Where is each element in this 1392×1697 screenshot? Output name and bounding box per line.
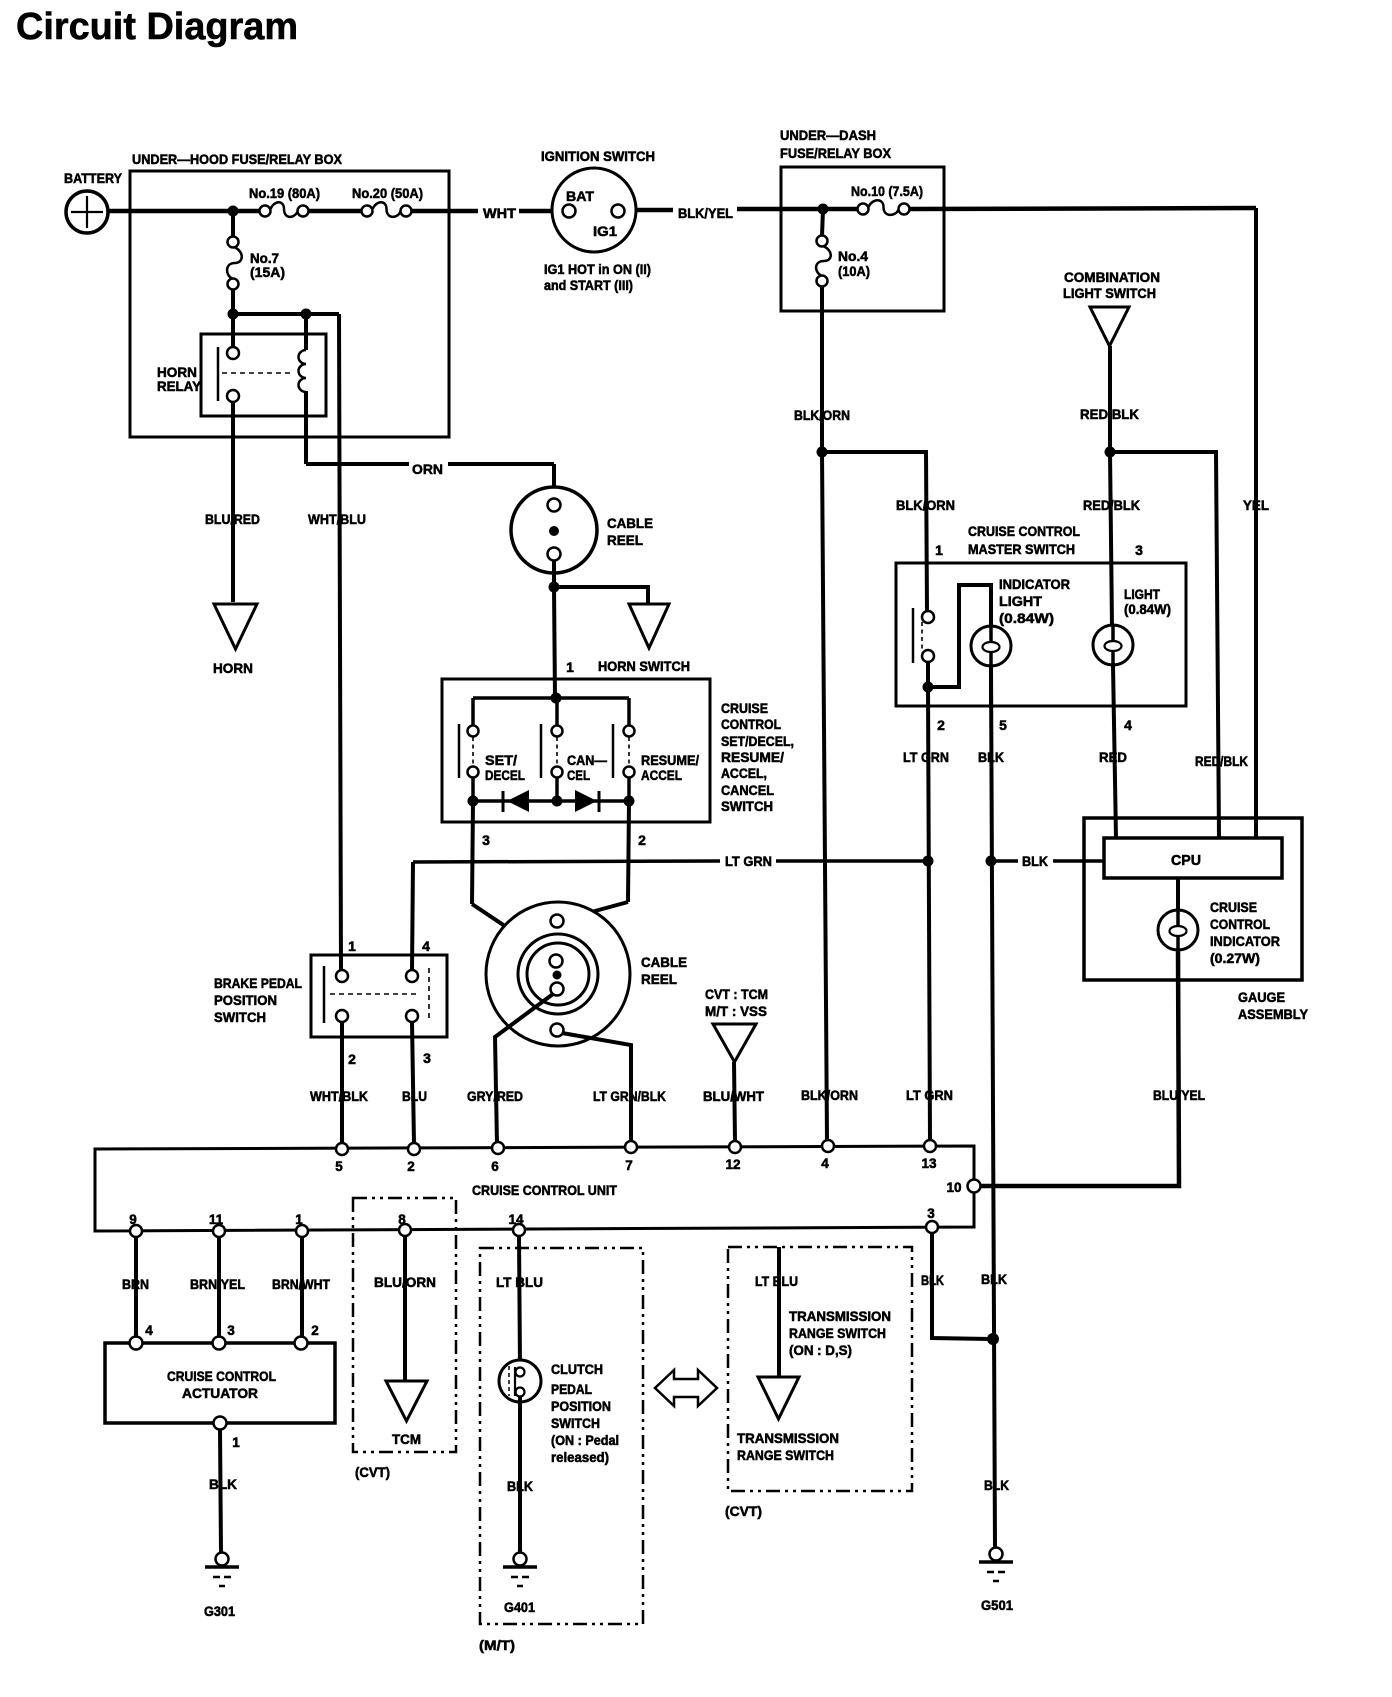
svg-text:BRN: BRN bbox=[122, 1276, 149, 1292]
svg-text:BLK: BLK bbox=[984, 1477, 1009, 1493]
svg-text:GAUGE: GAUGE bbox=[1238, 989, 1285, 1005]
svg-text:HORN: HORN bbox=[213, 660, 253, 676]
horn relay bbox=[201, 334, 326, 416]
svg-text:LT GRN: LT GRN bbox=[906, 1087, 953, 1103]
svg-text:(15A): (15A) bbox=[250, 264, 285, 280]
cruise control set/decel/resume/accel/cancel switch bbox=[442, 679, 710, 822]
relay coil bbox=[299, 350, 306, 392]
svg-text:ACTUATOR: ACTUATOR bbox=[182, 1385, 258, 1401]
svg-text:LT GRN/BLK: LT GRN/BLK bbox=[593, 1088, 666, 1104]
svg-text:TCM: TCM bbox=[392, 1431, 421, 1447]
svg-text:2: 2 bbox=[407, 1159, 415, 1174]
wire: reel to horn switch node bbox=[552, 561, 556, 583]
svg-text:WHT: WHT bbox=[483, 205, 516, 221]
svg-text:2: 2 bbox=[638, 832, 646, 848]
gauge assembly box bbox=[1084, 818, 1302, 980]
svg-text:SWITCH: SWITCH bbox=[214, 1009, 266, 1025]
transmission range triangle bbox=[758, 1377, 799, 1419]
svg-text:11: 11 bbox=[209, 1212, 224, 1227]
wire: battery to fuse box bus (WHT) bbox=[106, 209, 259, 214]
cruise control indicator bulb bbox=[1158, 910, 1198, 950]
ground G401 bbox=[514, 1553, 527, 1566]
svg-text:2: 2 bbox=[348, 1051, 356, 1067]
svg-text:10: 10 bbox=[946, 1180, 961, 1195]
svg-text:released): released) bbox=[551, 1449, 609, 1465]
svg-text:CABLE: CABLE bbox=[641, 954, 687, 970]
svg-text:G401: G401 bbox=[504, 1599, 535, 1615]
svg-text:6: 6 bbox=[491, 1159, 499, 1174]
wire: coil top bbox=[304, 314, 308, 350]
svg-text:No.10 (7.5A): No.10 (7.5A) bbox=[851, 183, 923, 199]
node: switch bus junction bbox=[551, 693, 562, 704]
svg-text:BLU/RED: BLU/RED bbox=[205, 511, 260, 527]
wire: BLK pin5 down to G501 bbox=[991, 666, 995, 1548]
node: bus junction at fuse box bbox=[228, 206, 239, 217]
wire: WHT/BLU down to brake pedal switch bbox=[339, 314, 341, 971]
svg-text:REEL: REEL bbox=[641, 971, 677, 987]
wire: reel to LT GRN/BLK bbox=[562, 1033, 631, 1142]
svg-text:RESUME/: RESUME/ bbox=[641, 752, 699, 768]
svg-text:POSITION: POSITION bbox=[214, 992, 277, 1008]
svg-text:No.4: No.4 bbox=[838, 248, 868, 264]
svg-text:13: 13 bbox=[921, 1156, 937, 1171]
svg-text:(0.27W): (0.27W) bbox=[1210, 950, 1260, 966]
svg-text:LIGHT: LIGHT bbox=[1124, 586, 1160, 602]
node: under-dash junction bbox=[818, 204, 829, 215]
wire: CPU to cruise control indicator bbox=[1176, 878, 1180, 912]
svg-text:14: 14 bbox=[508, 1212, 524, 1227]
svg-text:BLU/ORN: BLU/ORN bbox=[374, 1274, 436, 1290]
svg-text:4: 4 bbox=[1124, 717, 1132, 733]
svg-text:IGNITION SWITCH: IGNITION SWITCH bbox=[541, 148, 655, 164]
node: LT GRN joins master pin 2 line bbox=[923, 856, 934, 867]
node: relay feed junction bbox=[228, 309, 239, 320]
svg-text:WHT/BLK: WHT/BLK bbox=[310, 1088, 368, 1104]
diode D1 (points left) bbox=[502, 791, 505, 812]
svg-text:CRUISE CONTROL: CRUISE CONTROL bbox=[968, 523, 1080, 539]
wire: LT GRN down to brake pedal pin 4 bbox=[412, 862, 413, 971]
node: RED/BLK branch bbox=[1105, 447, 1116, 458]
svg-text:(CVT): (CVT) bbox=[355, 1464, 390, 1480]
svg-text:BLK/ORN: BLK/ORN bbox=[794, 407, 850, 423]
svg-text:CPU: CPU bbox=[1171, 852, 1201, 869]
svg-text:5: 5 bbox=[999, 717, 1007, 733]
svg-text:RED/BLK: RED/BLK bbox=[1080, 406, 1139, 422]
wire: BLU/WHT to unit pin 12 bbox=[734, 1062, 735, 1142]
wire: down into switch box bbox=[554, 587, 555, 698]
svg-text:SWITCH: SWITCH bbox=[721, 798, 773, 814]
svg-text:Circuit Diagram: Circuit Diagram bbox=[16, 6, 298, 48]
unit pins bottom bbox=[130, 1225, 142, 1237]
svg-text:UNDER—HOOD FUSE/RELAY BOX: UNDER—HOOD FUSE/RELAY BOX bbox=[132, 151, 343, 167]
double arrow (M/T <-> CVT alternative) bbox=[655, 1370, 717, 1406]
wire: LT BLU bbox=[777, 1247, 781, 1379]
wire: relay contact to horn (BLU/RED) bbox=[231, 402, 235, 602]
indicator light bulb bbox=[971, 626, 1011, 666]
svg-text:BLU/YEL: BLU/YEL bbox=[1153, 1087, 1205, 1103]
svg-text:BLK: BLK bbox=[507, 1478, 533, 1494]
wire: node to relay contact bbox=[231, 314, 235, 348]
svg-text:1: 1 bbox=[232, 1435, 240, 1450]
wire: pin2 WHT/BLK to unit pin 5 bbox=[340, 1022, 344, 1144]
svg-text:(M/T): (M/T) bbox=[479, 1637, 515, 1653]
horn triangle bbox=[214, 604, 257, 649]
clutch pedal switch bbox=[499, 1360, 541, 1402]
wire: BLU/ORN pin 8 to TCM bbox=[403, 1236, 407, 1382]
svg-text:BRAKE PEDAL: BRAKE PEDAL bbox=[214, 975, 302, 991]
cruise control unit box bbox=[95, 1146, 974, 1231]
svg-text:BLU/WHT: BLU/WHT bbox=[703, 1088, 764, 1104]
wire: pin2 diagonal to reel bbox=[562, 902, 628, 920]
cruise control actuator bbox=[105, 1343, 335, 1423]
svg-text:LT BLU: LT BLU bbox=[496, 1274, 543, 1290]
svg-text:CAN—: CAN— bbox=[567, 752, 607, 768]
svg-text:and START (III): and START (III) bbox=[544, 277, 633, 293]
svg-text:INDICATOR: INDICATOR bbox=[999, 576, 1070, 592]
RESUME/ACCEL switch contacts bbox=[612, 724, 615, 778]
CPU box bbox=[1104, 838, 1282, 878]
svg-text:BRN/YEL: BRN/YEL bbox=[190, 1276, 245, 1292]
svg-text:REEL: REEL bbox=[607, 532, 643, 548]
svg-text:WHT/BLU: WHT/BLU bbox=[308, 511, 366, 527]
wire: junction to fuse No.4 bbox=[822, 209, 823, 236]
svg-text:1: 1 bbox=[295, 1212, 303, 1227]
svg-text:RED: RED bbox=[1099, 749, 1127, 765]
fuse No.7 (15A) bbox=[228, 237, 239, 248]
wire: RED/BLK down bbox=[1108, 346, 1112, 452]
svg-text:7: 7 bbox=[625, 1158, 633, 1173]
svg-text:ACCEL,: ACCEL, bbox=[721, 765, 767, 781]
svg-text:BAT: BAT bbox=[566, 188, 594, 204]
svg-text:LIGHT: LIGHT bbox=[999, 593, 1042, 609]
svg-text:LT GRN: LT GRN bbox=[725, 853, 772, 869]
CANCEL switch contacts bbox=[540, 724, 543, 778]
svg-text:TRANSMISSION: TRANSMISSION bbox=[737, 1430, 839, 1446]
wire: BLU/YEL down to unit pin 10 bbox=[980, 950, 1179, 1186]
wire: L-path to indicator lamp bbox=[928, 585, 991, 687]
svg-text:SET/: SET/ bbox=[485, 752, 517, 768]
fuse No.4 (10A) bbox=[817, 236, 828, 247]
svg-text:BLK: BLK bbox=[1022, 853, 1048, 869]
svg-text:4: 4 bbox=[422, 938, 430, 954]
wire: pin 3 out bbox=[472, 801, 473, 904]
svg-text:1: 1 bbox=[566, 659, 574, 675]
svg-text:BLK: BLK bbox=[981, 1271, 1007, 1287]
svg-text:YEL: YEL bbox=[1243, 497, 1269, 513]
wire: pin3 diagonal to reel center bbox=[472, 904, 551, 957]
svg-text:CONTROL: CONTROL bbox=[721, 716, 781, 732]
svg-text:UNDER—DASH: UNDER—DASH bbox=[780, 127, 876, 143]
brake pedal position switch bbox=[311, 955, 447, 1037]
svg-text:GRY/RED: GRY/RED bbox=[467, 1088, 523, 1104]
wire: BLK/ORN main down to unit pin 4 bbox=[822, 452, 827, 1141]
svg-text:(0.84W): (0.84W) bbox=[999, 610, 1054, 626]
svg-text:BRN/WHT: BRN/WHT bbox=[272, 1276, 330, 1292]
diode D2 (points right) bbox=[575, 790, 597, 812]
svg-text:CRUISE CONTROL: CRUISE CONTROL bbox=[167, 1368, 276, 1384]
svg-text:G301: G301 bbox=[204, 1603, 235, 1619]
svg-text:ASSEMBLY: ASSEMBLY bbox=[1238, 1006, 1309, 1022]
svg-text:5: 5 bbox=[335, 1159, 343, 1174]
svg-text:POSITION: POSITION bbox=[551, 1398, 611, 1414]
under-hood fuse/relay box bbox=[130, 171, 449, 437]
svg-text:3: 3 bbox=[227, 1323, 235, 1338]
svg-text:9: 9 bbox=[129, 1212, 137, 1227]
svg-text:3: 3 bbox=[482, 832, 490, 848]
svg-text:CABLE: CABLE bbox=[607, 515, 653, 531]
wire: pin 2 out bbox=[628, 801, 629, 902]
svg-text:BLK/ORN: BLK/ORN bbox=[896, 497, 955, 513]
svg-text:RED/BLK: RED/BLK bbox=[1083, 497, 1140, 513]
svg-text:CLUTCH: CLUTCH bbox=[551, 1361, 603, 1377]
wire: YEL from bus to CPU bbox=[1254, 208, 1258, 838]
svg-text:BLK: BLK bbox=[978, 749, 1004, 765]
master switch contact bbox=[912, 608, 915, 663]
wire: IG1 to under-dash box (BLK/YEL) bbox=[624, 208, 673, 213]
svg-text:BLK: BLK bbox=[921, 1272, 944, 1288]
svg-text:LIGHT SWITCH: LIGHT SWITCH bbox=[1063, 285, 1156, 301]
clutch pedal position switch (M/T) dashed box bbox=[480, 1248, 643, 1624]
wire: unit pin 3 BLK to ground run bbox=[932, 1233, 990, 1339]
svg-text:2: 2 bbox=[311, 1323, 319, 1338]
svg-text:DECEL: DECEL bbox=[485, 767, 525, 783]
fuse No.20 (50A) bbox=[362, 206, 373, 217]
wire: internal bus bbox=[473, 696, 629, 700]
wire: reel to GRY/RED bbox=[495, 994, 553, 1144]
fuse No.19 (80A) bbox=[260, 206, 271, 217]
svg-text:LT BLU: LT BLU bbox=[755, 1273, 798, 1289]
svg-text:RANGE SWITCH: RANGE SWITCH bbox=[737, 1447, 834, 1463]
diode bus bbox=[471, 778, 475, 801]
svg-text:CRUISE: CRUISE bbox=[1210, 899, 1257, 915]
wire: coil bottom to ORN run bbox=[304, 391, 308, 464]
node: switch to lamp bbox=[923, 682, 934, 693]
node bbox=[549, 582, 560, 593]
svg-text:(ON : D,S): (ON : D,S) bbox=[789, 1342, 852, 1358]
svg-text:(0.84W): (0.84W) bbox=[1124, 601, 1171, 617]
svg-text:BLK/ORN: BLK/ORN bbox=[801, 1087, 858, 1103]
horn switch triangle bbox=[629, 604, 669, 648]
svg-text:1: 1 bbox=[348, 938, 356, 954]
svg-text:BATTERY: BATTERY bbox=[64, 170, 123, 186]
wire: BLK/ORN branch to master switch pin 1 bbox=[822, 452, 927, 612]
battery bbox=[66, 191, 108, 233]
cruise control master switch bbox=[896, 563, 1186, 706]
svg-text:CVT : TCM: CVT : TCM bbox=[705, 986, 768, 1002]
svg-text:CANCEL: CANCEL bbox=[721, 782, 774, 798]
svg-text:3: 3 bbox=[927, 1206, 935, 1221]
svg-text:IG1: IG1 bbox=[593, 223, 617, 239]
svg-text:No.20 (50A): No.20 (50A) bbox=[352, 185, 423, 201]
svg-text:TRANSMISSION: TRANSMISSION bbox=[789, 1308, 891, 1324]
under-dash fuse/relay box bbox=[781, 167, 944, 311]
svg-text:INDICATOR: INDICATOR bbox=[1210, 933, 1280, 949]
svg-text:(10A): (10A) bbox=[838, 263, 870, 279]
svg-text:4: 4 bbox=[145, 1323, 153, 1338]
wire: LT BLU pin 14 to clutch switch bbox=[519, 1236, 520, 1368]
svg-text:G501: G501 bbox=[981, 1597, 1013, 1613]
svg-text:HORN SWITCH: HORN SWITCH bbox=[598, 658, 690, 674]
wire: lamp to pin 5 bbox=[989, 666, 993, 708]
svg-text:CRUISE: CRUISE bbox=[721, 700, 768, 716]
svg-text:IG1 HOT in ON (II): IG1 HOT in ON (II) bbox=[544, 261, 651, 277]
wire: BLK to CPU bbox=[991, 859, 1018, 863]
svg-text:PEDAL: PEDAL bbox=[551, 1381, 592, 1397]
svg-text:1: 1 bbox=[935, 542, 943, 558]
svg-text:RESUME/: RESUME/ bbox=[721, 749, 784, 765]
TCM (CVT) dashed box bbox=[353, 1198, 456, 1452]
wire: BLK to G301 bbox=[220, 1430, 221, 1553]
svg-text:4: 4 bbox=[821, 1156, 829, 1171]
light bulb bbox=[1093, 625, 1133, 665]
node: coil top junction bbox=[301, 309, 312, 320]
svg-text:(ON : Pedal: (ON : Pedal bbox=[551, 1432, 619, 1448]
wire: RED/BLK branch to CPU bbox=[1110, 452, 1219, 838]
svg-text:COMBINATION: COMBINATION bbox=[1064, 269, 1160, 285]
svg-text:CONTROL: CONTROL bbox=[1210, 916, 1270, 932]
wire: LT GRN pin2 down to unit pin 13 bbox=[928, 687, 930, 1141]
svg-text:8: 8 bbox=[398, 1212, 406, 1227]
wire: BLK/ORN down from under-dash box bbox=[820, 286, 824, 452]
wire: LT GRN horizontal bbox=[413, 861, 720, 862]
svg-text:BLK/YEL: BLK/YEL bbox=[678, 205, 733, 221]
cable reel (lower) bbox=[486, 902, 630, 1046]
svg-text:BLK: BLK bbox=[209, 1476, 237, 1492]
transmission range switch (CVT) dashed box bbox=[728, 1247, 912, 1491]
svg-text:RANGE SWITCH: RANGE SWITCH bbox=[789, 1325, 886, 1341]
svg-text:(CVT): (CVT) bbox=[725, 1503, 762, 1519]
ignition switch bbox=[552, 168, 636, 252]
fuse No.10 (7.5A) bbox=[858, 204, 869, 215]
svg-text:FUSE/RELAY BOX: FUSE/RELAY BOX bbox=[780, 145, 892, 161]
wire: RED/BLK to master switch pin 3 bbox=[1110, 452, 1112, 626]
wire: fuse No.7 to relay node bbox=[231, 289, 235, 314]
svg-text:LT GRN: LT GRN bbox=[903, 749, 949, 765]
wire: junction down to fuse No.7 bbox=[231, 211, 235, 237]
svg-text:CEL: CEL bbox=[567, 767, 590, 783]
svg-text:No.19 (80A): No.19 (80A) bbox=[249, 185, 320, 201]
svg-text:12: 12 bbox=[725, 1157, 740, 1172]
wire: BRN pin9 to actuator pin 4 bbox=[134, 1237, 138, 1338]
wire: light to pin 4 / RED to CPU bbox=[1113, 665, 1116, 838]
SET/DECEL switch contacts bbox=[458, 724, 461, 778]
cable reel (upper) bbox=[511, 487, 597, 573]
wire: BRN/WHT pin1 to actuator pin 2 bbox=[300, 1237, 304, 1338]
node: BLK junction bbox=[986, 856, 997, 867]
unit pin 10 bbox=[968, 1180, 981, 1193]
wire: BRN/YEL pin11 to actuator pin 3 bbox=[217, 1237, 221, 1338]
svg-text:SET/DECEL,: SET/DECEL, bbox=[721, 733, 794, 749]
svg-text:ORN: ORN bbox=[412, 461, 443, 477]
svg-text:CRUISE CONTROL UNIT: CRUISE CONTROL UNIT bbox=[472, 1182, 617, 1198]
ground G501 bbox=[990, 1548, 1003, 1561]
wire: BLK to G401 bbox=[518, 1396, 522, 1553]
svg-text:MASTER SWITCH: MASTER SWITCH bbox=[968, 541, 1075, 557]
wire: branch to horn switch bbox=[554, 587, 648, 605]
svg-text:3: 3 bbox=[423, 1050, 431, 1066]
svg-text:BLU: BLU bbox=[402, 1088, 427, 1104]
svg-text:3: 3 bbox=[1135, 542, 1143, 558]
ground G301 bbox=[216, 1553, 229, 1566]
svg-text:SWITCH: SWITCH bbox=[551, 1415, 600, 1431]
svg-text:ACCEL: ACCEL bbox=[641, 767, 682, 783]
svg-text:RELAY: RELAY bbox=[157, 378, 202, 394]
node: BLK/ORN branch bbox=[817, 447, 828, 458]
unit pins top bbox=[336, 1143, 348, 1155]
TCM triangle bbox=[386, 1381, 427, 1421]
svg-text:RED/BLK: RED/BLK bbox=[1195, 753, 1248, 769]
node: BLK join bbox=[987, 1333, 999, 1345]
svg-text:M/T : VSS: M/T : VSS bbox=[705, 1003, 767, 1019]
wire: jog to WHT/BLU drop bbox=[233, 312, 339, 316]
wire: pin3 BLU to unit pin 2 bbox=[412, 1022, 414, 1144]
svg-text:2: 2 bbox=[937, 717, 945, 733]
